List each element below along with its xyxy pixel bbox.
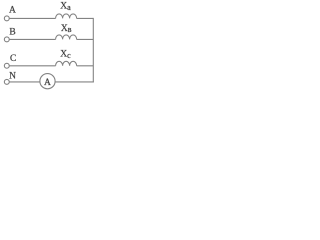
svg-text:A: A	[44, 78, 51, 88]
wire A right	[77, 17, 94, 19]
wire B right	[77, 38, 94, 40]
terminal N	[4, 79, 9, 84]
wire B left	[9, 38, 55, 40]
svg-text:Xa: Xa	[60, 2, 71, 12]
bus (right vertical)	[92, 18, 94, 83]
svg-text:B: B	[9, 27, 15, 37]
svg-text:Xc: Xc	[60, 50, 71, 60]
inductor Xc	[56, 61, 77, 66]
svg-text:A: A	[9, 6, 16, 16]
wire C left	[9, 65, 55, 67]
wire N left	[9, 81, 40, 83]
svg-text:C: C	[10, 54, 16, 64]
inductor Xa	[56, 14, 77, 19]
ammeter A1 circle	[40, 74, 55, 89]
wire N right	[55, 81, 94, 83]
svg-text:Xв: Xв	[61, 24, 72, 34]
wire C right	[77, 65, 94, 67]
svg-text:N: N	[9, 72, 16, 82]
inductor Xв	[56, 35, 77, 40]
terminal C	[4, 63, 9, 68]
wire A left	[9, 17, 55, 19]
terminal A	[4, 16, 9, 21]
terminal B	[4, 37, 9, 42]
